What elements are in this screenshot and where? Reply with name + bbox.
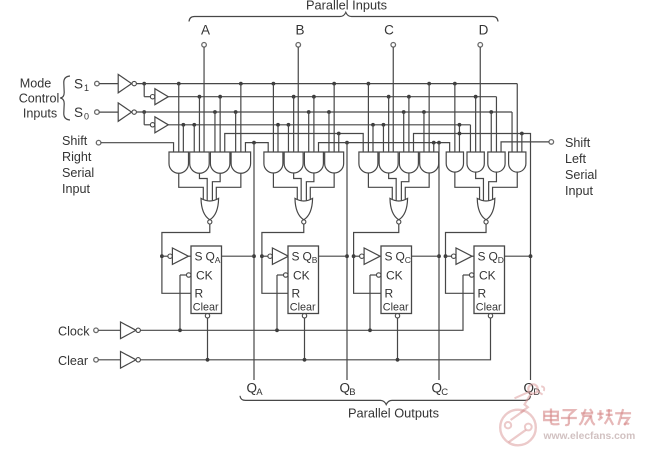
- svg-text:R: R: [385, 287, 394, 301]
- parallel input A terminal and wire: [201, 23, 210, 153]
- CK input bubble and wire stage2: [277, 273, 288, 331]
- label Parallel Outputs: [348, 406, 439, 421]
- svg-text:Clock: Clock: [58, 325, 90, 339]
- label Clock: [58, 325, 90, 339]
- net QC feedback (lower line + riser): [319, 141, 450, 380]
- svg-text:Shift: Shift: [565, 136, 591, 150]
- svg-text:S: S: [292, 250, 300, 264]
- flip-flop latch 2 (S-R with clear): [288, 246, 319, 314]
- clock buffer: [94, 322, 141, 339]
- svg-text:R: R: [195, 287, 204, 301]
- brace parallel outputs: [240, 396, 531, 405]
- svg-text:Input: Input: [565, 184, 594, 198]
- AND gate stage4 #2: [467, 152, 484, 172]
- net S1 bus: [168, 95, 496, 152]
- watermark logo elecfans: [500, 384, 544, 445]
- label Shift Right Serial Input: [62, 134, 94, 196]
- label S0: [74, 105, 89, 122]
- label Mode Control Inputs: [19, 77, 60, 121]
- svg-text:R: R: [292, 287, 301, 301]
- svg-text:D: D: [479, 23, 489, 38]
- AND gate stage1 #2: [190, 152, 210, 173]
- svg-text:Q: Q: [206, 250, 215, 264]
- parallel input B terminal and wire: [295, 23, 304, 153]
- svg-text:C: C: [384, 23, 394, 38]
- AND gate stage3 #3: [399, 152, 418, 173]
- svg-text:S: S: [385, 250, 393, 264]
- svg-text:CK: CK: [293, 269, 310, 283]
- svg-text:CK: CK: [386, 269, 403, 283]
- AND gate stage1 #1: [169, 152, 189, 173]
- Clear input bubble and wire stage2: [302, 314, 306, 360]
- net QD feedback (upper line + riser): [414, 132, 533, 380]
- label QC output: [432, 381, 449, 399]
- svg-text:D: D: [498, 255, 504, 265]
- AND gate stage1 #4: [231, 152, 251, 173]
- Clear input bubble and wire stage4: [488, 314, 492, 318]
- watermark char 1: [544, 409, 559, 425]
- svg-text:Control: Control: [19, 92, 60, 106]
- AND gate stage2 #4: [325, 152, 344, 173]
- svg-text:A: A: [201, 23, 210, 38]
- parallel input C terminal and wire: [384, 23, 395, 153]
- NOR gate stage2: [295, 198, 313, 224]
- AND gate stage4 #4: [509, 152, 526, 172]
- AND gate stage2 #2: [284, 152, 303, 173]
- AND gate stage3 #4: [420, 152, 439, 173]
- wire QA output stage1: [222, 255, 255, 257]
- AND gate stage4 #3: [488, 152, 505, 172]
- net S1-bar bus: [137, 82, 518, 152]
- svg-text:Mode: Mode: [20, 77, 52, 91]
- watermark char 4: [597, 409, 613, 425]
- parallel input D terminal and wire: [478, 23, 489, 153]
- inverter S-input stage1: [168, 248, 191, 264]
- svg-text:Clear: Clear: [290, 302, 316, 314]
- CK input bubble and wire stage3: [370, 273, 381, 331]
- label QB output: [340, 381, 356, 399]
- AND gate stage2 #3: [304, 152, 323, 173]
- Clear input bubble and wire stage3: [395, 314, 399, 360]
- svg-text:S: S: [74, 76, 83, 91]
- AND gate stage3 #2: [379, 152, 398, 173]
- inverter U2 S1 buffer (input bubble): [142, 82, 168, 105]
- wires AND outputs to NOR stage2: [273, 173, 334, 201]
- svg-text:Q: Q: [396, 250, 405, 264]
- svg-text:Clear: Clear: [58, 354, 88, 368]
- terminal S1: [95, 81, 119, 86]
- svg-text:Clear: Clear: [383, 302, 409, 314]
- terminal and wire shift-right serial: [96, 140, 173, 152]
- wire NOR output to S/R stage4: [444, 224, 486, 293]
- svg-text:Inputs: Inputs: [23, 107, 57, 121]
- flip-flop latch 1 (S-R with clear): [191, 246, 222, 314]
- AND gate stage4 #1: [446, 152, 463, 172]
- svg-text:Shift: Shift: [62, 134, 88, 148]
- svg-text:Right: Right: [62, 150, 92, 164]
- svg-text:Serial: Serial: [62, 166, 94, 180]
- NOR gate stage3: [390, 198, 408, 224]
- svg-text:Input: Input: [62, 182, 91, 196]
- label Shift Left Serial Input: [565, 136, 597, 198]
- svg-text:B: B: [295, 23, 304, 38]
- watermark url: [543, 431, 636, 442]
- AND gate stage3 #1: [359, 152, 378, 173]
- svg-text:C: C: [405, 255, 411, 265]
- svg-text:Serial: Serial: [565, 168, 597, 182]
- svg-text:R: R: [478, 287, 487, 301]
- net clock line: [140, 275, 463, 332]
- wire NOR output to S/R stage2: [260, 224, 304, 293]
- wire NOR output to S/R stage1: [160, 224, 210, 293]
- terminal S0: [95, 110, 119, 115]
- svg-text:Clear: Clear: [476, 302, 502, 314]
- wires AND outputs to NOR stage3: [368, 173, 429, 201]
- brace mode control: [60, 76, 70, 120]
- clear buffer: [94, 352, 141, 369]
- svg-text:CK: CK: [196, 269, 213, 283]
- svg-text:S: S: [195, 250, 203, 264]
- CK input bubble and wire stage1: [180, 273, 191, 331]
- watermark char 5: [615, 409, 631, 425]
- svg-text:A: A: [256, 387, 263, 398]
- flip-flop latch 3 (S-R with clear): [381, 246, 412, 314]
- watermark char 2: [561, 410, 577, 425]
- inverter S-input stage4: [452, 248, 475, 264]
- net S0 bus: [168, 123, 470, 152]
- label QD output: [524, 381, 541, 399]
- svg-text:Q: Q: [489, 250, 498, 264]
- NOR gate stage1: [201, 198, 219, 224]
- inverter S-input stage3: [360, 248, 381, 264]
- svg-text:B: B: [349, 387, 355, 398]
- wires AND outputs to NOR stage1: [179, 173, 241, 201]
- label S1: [74, 76, 89, 93]
- svg-text:C: C: [441, 387, 448, 398]
- svg-text:0: 0: [84, 111, 89, 121]
- net QB feedback (upper line + riser): [225, 132, 363, 380]
- NOR gate stage4: [477, 198, 495, 224]
- wire NOR output to S/R stage3: [352, 224, 399, 293]
- flip-flop latch 4 (S-R with clear): [474, 246, 505, 314]
- svg-text:Clear: Clear: [193, 302, 219, 314]
- AND gate stage2 #1: [264, 152, 283, 173]
- svg-text:Q: Q: [303, 250, 312, 264]
- svg-text:S: S: [74, 105, 83, 120]
- svg-text:Parallel Outputs: Parallel Outputs: [348, 406, 439, 421]
- brace parallel inputs: [189, 12, 498, 21]
- AND gate stage1 #3: [210, 152, 230, 173]
- label Clear: [58, 354, 88, 368]
- CK input bubble and wire stage4: [463, 273, 474, 277]
- net QA feedback (tee + riser): [245, 141, 268, 380]
- net S0-bar bus: [137, 110, 512, 152]
- wire QD output stage4: [505, 255, 531, 257]
- svg-text:Parallel Inputs: Parallel Inputs: [306, 0, 387, 13]
- svg-text:S: S: [478, 250, 486, 264]
- inverter U1 S1 (output bubble): [118, 74, 136, 92]
- inverter U4 S0 buffer (input bubble): [142, 110, 168, 133]
- inverter S-input stage2: [268, 248, 289, 264]
- svg-text:www.elecfans.com: www.elecfans.com: [543, 431, 636, 442]
- svg-text:1: 1: [84, 83, 89, 93]
- inverter U3 S0 (output bubble): [118, 103, 136, 121]
- label QA output: [247, 381, 264, 399]
- svg-text:Left: Left: [565, 152, 587, 166]
- wires AND outputs to NOR stage4: [455, 172, 517, 201]
- label Parallel Inputs: [306, 0, 387, 13]
- wire QB output stage2: [319, 255, 348, 257]
- Clear input bubble and wire stage1: [205, 314, 209, 360]
- watermark char 3: [579, 409, 594, 425]
- net clear line: [140, 318, 490, 362]
- svg-text:CK: CK: [479, 269, 496, 283]
- svg-text:B: B: [312, 255, 318, 265]
- terminal and wire shift-left serial: [501, 140, 554, 152]
- svg-text:A: A: [215, 255, 221, 265]
- wire QC output stage3: [412, 255, 440, 257]
